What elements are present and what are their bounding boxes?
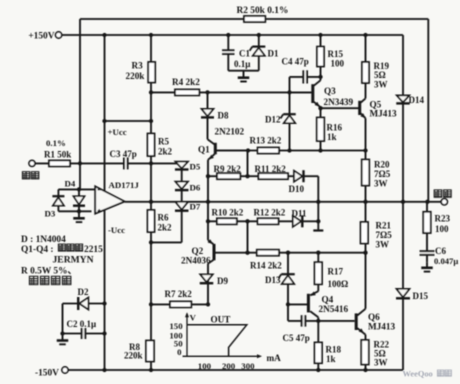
svg-text:R1 50k: R1 50k	[44, 149, 71, 159]
svg-text:3W: 3W	[374, 357, 388, 367]
svg-text:D3: D3	[45, 208, 56, 218]
svg-text:D13: D13	[265, 275, 281, 285]
svg-text:D14: D14	[409, 95, 425, 105]
svg-text:JERMYN: JERMYN	[53, 255, 94, 266]
svg-text:D4: D4	[65, 178, 76, 188]
svg-text:7Ω5: 7Ω5	[376, 230, 393, 240]
svg-text:R 0.5W 5%、: R 0.5W 5%、	[21, 267, 77, 277]
svg-text:2N3439: 2N3439	[324, 97, 354, 107]
svg-text:MJ413: MJ413	[368, 322, 395, 332]
svg-text:Q4: Q4	[322, 295, 334, 305]
svg-text:220k: 220k	[126, 71, 146, 81]
svg-text:7Ω5: 7Ω5	[374, 169, 391, 179]
svg-text:-150V: -150V	[35, 368, 59, 378]
svg-text:R12 2k2: R12 2k2	[254, 207, 286, 217]
svg-text:100: 100	[435, 224, 449, 234]
svg-text:D9: D9	[217, 276, 228, 286]
svg-text:0.1μ: 0.1μ	[234, 59, 250, 69]
svg-text:220k: 220k	[124, 350, 143, 360]
svg-text:0.047μ: 0.047μ	[434, 256, 458, 266]
svg-text:C6: C6	[435, 246, 446, 256]
svg-text:R21: R21	[376, 221, 392, 231]
svg-text:200: 200	[222, 361, 236, 371]
svg-text:D5: D5	[190, 161, 201, 171]
svg-text:R6: R6	[158, 213, 169, 223]
svg-text:C5 47p: C5 47p	[283, 333, 310, 343]
svg-text:D2: D2	[78, 287, 89, 297]
svg-text:2N2102: 2N2102	[215, 127, 245, 137]
svg-text:100: 100	[198, 361, 212, 371]
svg-text:V: V	[190, 313, 197, 323]
svg-text:100: 100	[331, 58, 345, 68]
svg-text:0.1%: 0.1%	[46, 138, 66, 148]
svg-text:100Ω: 100Ω	[328, 279, 349, 289]
svg-text:C2 0.1μ: C2 0.1μ	[67, 319, 97, 329]
svg-text:D : 1N4004: D : 1N4004	[21, 235, 66, 245]
svg-text:-Ucc: -Ucc	[108, 225, 125, 235]
svg-text:Q1: Q1	[198, 145, 210, 155]
svg-text:D15: D15	[413, 291, 429, 301]
svg-text:R7 2k2: R7 2k2	[165, 289, 193, 299]
svg-text:3W: 3W	[376, 240, 390, 250]
svg-text:R11 2k2: R11 2k2	[255, 164, 287, 174]
svg-text:Q1-Q4 :: Q1-Q4 :	[21, 245, 54, 255]
svg-text:mA: mA	[267, 353, 282, 363]
svg-text:R13 2k2: R13 2k2	[250, 136, 282, 146]
svg-text:D10: D10	[289, 184, 305, 194]
svg-text:C4 47p: C4 47p	[282, 57, 309, 67]
svg-text:C3 47p: C3 47p	[110, 149, 137, 159]
svg-text:D12: D12	[265, 115, 281, 125]
svg-text:R3: R3	[132, 61, 144, 71]
svg-text:D11: D11	[292, 209, 308, 219]
svg-text:R2 50k 0.1%: R2 50k 0.1%	[237, 6, 289, 16]
svg-text:2k2: 2k2	[158, 223, 173, 233]
svg-text:+Ucc: +Ucc	[108, 127, 127, 137]
svg-text:R9 2k2: R9 2k2	[214, 164, 242, 174]
svg-text:Q2: Q2	[192, 246, 204, 256]
svg-text:1k: 1k	[326, 354, 336, 364]
svg-text:3W: 3W	[374, 179, 388, 189]
svg-text:C1: C1	[239, 49, 250, 59]
svg-text:D8: D8	[218, 111, 229, 121]
svg-text:R4 2k2: R4 2k2	[172, 77, 200, 87]
svg-text:R23: R23	[435, 214, 451, 224]
svg-text:OUT: OUT	[211, 315, 231, 325]
svg-text:0: 0	[177, 347, 182, 357]
svg-text:2k2: 2k2	[158, 146, 173, 156]
svg-text:Q3: Q3	[324, 86, 336, 96]
svg-text:D1: D1	[268, 49, 279, 59]
svg-text:R20: R20	[374, 160, 390, 170]
svg-text:2N4036: 2N4036	[181, 256, 211, 266]
svg-text:300: 300	[241, 361, 255, 371]
svg-text:R5: R5	[158, 136, 169, 146]
svg-text:R10 2k2: R10 2k2	[212, 207, 244, 217]
svg-text:R14 2k2: R14 2k2	[250, 260, 282, 270]
svg-text:R17: R17	[328, 267, 344, 277]
svg-text:+150V: +150V	[28, 32, 54, 42]
svg-text:D7: D7	[190, 201, 201, 211]
svg-text:1k: 1k	[327, 132, 337, 142]
svg-text:2215: 2215	[84, 245, 103, 255]
svg-text:D6: D6	[190, 182, 201, 192]
svg-text:MJ413: MJ413	[370, 109, 397, 119]
svg-text:2N5416: 2N5416	[319, 304, 349, 314]
svg-text:3W: 3W	[374, 80, 388, 90]
svg-text:AD171J: AD171J	[109, 180, 140, 190]
svg-text:WeeQoo: WeeQoo	[403, 370, 433, 379]
